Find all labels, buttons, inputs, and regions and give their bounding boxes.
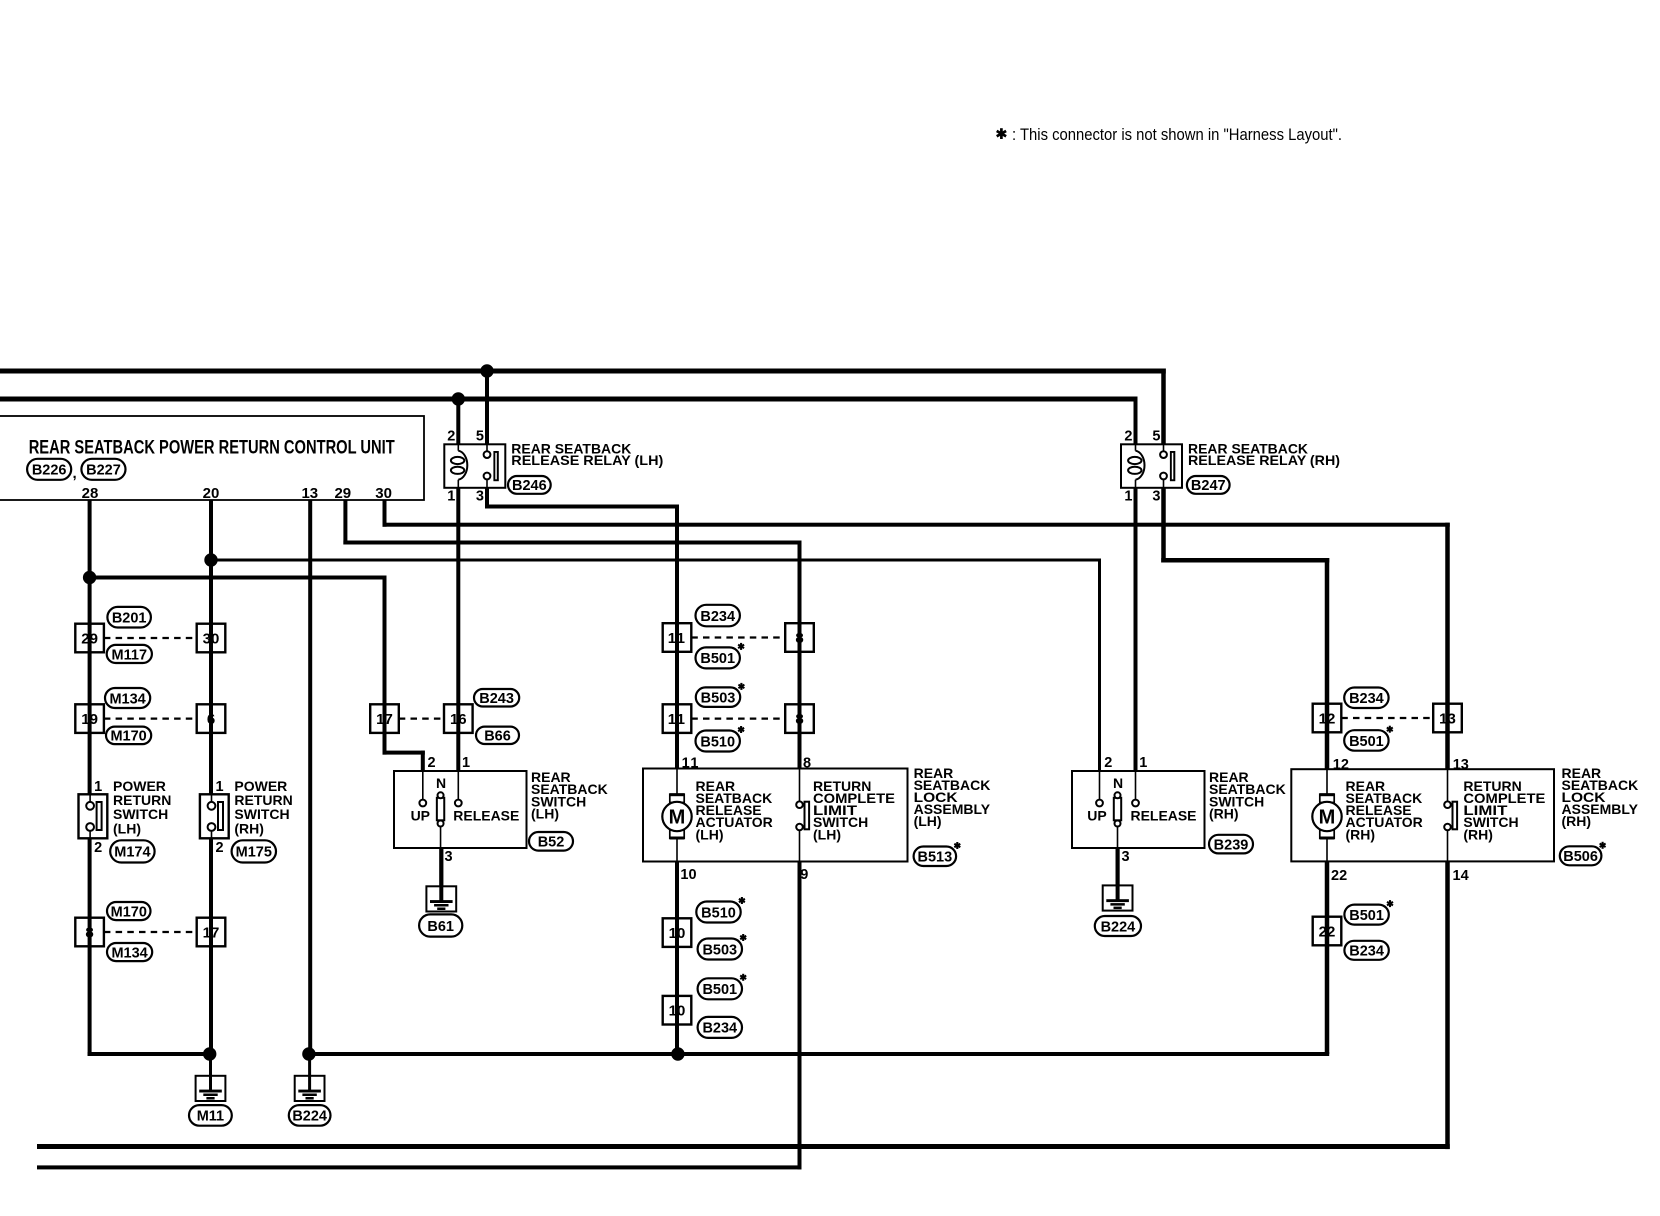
svg-text:14: 14 xyxy=(1453,868,1469,884)
power return switch (LH) name label xyxy=(113,778,171,836)
switch (LH) pin labels 2 1 3 xyxy=(428,755,471,865)
connector oval B234 xyxy=(1344,941,1388,960)
svg-text:B239: B239 xyxy=(1214,837,1249,853)
connector box 8 (upper) xyxy=(785,623,814,652)
wire: relay RH pin1 drop to switch RH pin1 xyxy=(1134,488,1138,770)
ground oval B224 xyxy=(1095,916,1141,936)
ground symbol B61 xyxy=(426,848,456,912)
ground symbol B224 (bottom) xyxy=(295,1054,325,1101)
relay B246 box xyxy=(444,444,505,488)
connector oval B503* xyxy=(696,687,740,707)
wire: relay RH pin3 drop xyxy=(1161,488,1166,563)
svg-text:17: 17 xyxy=(203,924,220,941)
ground oval M11 xyxy=(189,1105,232,1126)
switch (LH) N slider xyxy=(437,792,444,848)
connector box 17 (RH column) xyxy=(197,918,226,947)
wire: pin13 column xyxy=(308,500,312,1054)
wire: switch RH pin3 to ground B224 xyxy=(1116,848,1120,899)
relay B247 pin labels 2 5 1 3 xyxy=(1124,429,1160,505)
connector oval B243 xyxy=(474,689,519,707)
control unit box: REAR SEATBACK POWER RETURN CONTROL UNIT xyxy=(0,416,424,500)
ground oval B224 xyxy=(289,1105,331,1126)
lock assembly (RH) name label xyxy=(1562,765,1639,829)
connector box 16 xyxy=(444,704,473,733)
junction dot pin20 branch xyxy=(204,553,217,566)
svg-text:M174: M174 xyxy=(114,845,150,861)
switch (LH) RELEASE contact xyxy=(455,771,462,806)
svg-text:REAR SEATBACK POWER RETURN CON: REAR SEATBACK POWER RETURN CONTROL UNIT xyxy=(29,437,395,458)
svg-text:B501: B501 xyxy=(1349,908,1384,924)
svg-text:(RH): (RH) xyxy=(1463,826,1493,842)
wire: limit switch LH column lower xyxy=(798,862,802,1170)
wire: relay LH pin5 riser to bus1 xyxy=(485,369,489,445)
wire: pin29 horizontal to limit switch LH xyxy=(343,541,801,545)
release actuator motor (RH) xyxy=(1312,770,1341,862)
svg-text:3: 3 xyxy=(476,489,484,505)
svg-text:(LH): (LH) xyxy=(914,813,942,829)
switch (LH) text N UP RELEASE xyxy=(411,775,520,823)
connector box 22 xyxy=(1313,917,1342,946)
power return switch (RH) box xyxy=(200,794,229,838)
svg-text:17: 17 xyxy=(376,711,393,728)
svg-text:B503: B503 xyxy=(702,942,737,958)
connector box 30 xyxy=(197,624,226,653)
svg-text:RELEASE: RELEASE xyxy=(1131,807,1197,823)
actuator (LH) name label xyxy=(696,778,773,842)
lock assembly (RH) pin labels 12 13 22 14 xyxy=(1331,757,1469,884)
ground oval B61 xyxy=(419,914,462,936)
svg-text:M170: M170 xyxy=(111,904,147,920)
connector oval B506* xyxy=(1560,846,1602,865)
svg-text:12: 12 xyxy=(1333,757,1349,773)
wire: relay LH pin3 drop xyxy=(485,488,489,509)
relay label RELEASE RELAY (LH) xyxy=(511,440,663,468)
wire: switch LH pin2 drop xyxy=(421,751,425,771)
switch (RH) UP contact xyxy=(1096,771,1103,806)
wire: pin29 drop xyxy=(343,500,347,545)
connector oval B503* xyxy=(698,939,742,960)
wire: pin28 branch horizontal xyxy=(90,576,387,580)
wire: top bus line 2 xyxy=(0,397,1138,402)
power return switch (RH) contacts xyxy=(208,794,223,838)
svg-text:M: M xyxy=(1319,807,1336,829)
svg-text:M: M xyxy=(669,807,686,829)
wire: pin28 column lower xyxy=(88,838,92,1056)
wire: pin20 column upper xyxy=(209,500,213,794)
limit switch (LH) name label xyxy=(813,778,895,842)
svg-text:16: 16 xyxy=(450,711,467,728)
connector oval B247 xyxy=(1187,476,1230,494)
limit switch (RH) name label xyxy=(1463,778,1545,842)
svg-text:B52: B52 xyxy=(538,835,565,851)
svg-text:2: 2 xyxy=(216,840,224,856)
svg-text:RELEASE RELAY (RH): RELEASE RELAY (RH) xyxy=(1188,452,1340,468)
dashed link 19-6 xyxy=(104,717,197,719)
connector box 19 xyxy=(75,704,104,733)
svg-text:B234: B234 xyxy=(702,1021,737,1037)
svg-text:B506: B506 xyxy=(1563,849,1598,865)
wire: bus2 drop to relay RH pin2 xyxy=(1134,397,1138,445)
wire: switch RH pin2 drop xyxy=(1098,559,1101,771)
relay B246 coil xyxy=(451,444,467,488)
svg-text:B234: B234 xyxy=(1349,691,1384,707)
connector oval M170 xyxy=(106,727,151,745)
junction dot bus1 / relay LH pin5 xyxy=(480,364,493,377)
switch (LH) name label xyxy=(531,769,608,822)
dashed link 11-8 lower xyxy=(691,717,785,719)
svg-text:10: 10 xyxy=(669,925,686,942)
svg-text:3: 3 xyxy=(445,849,453,865)
relay B247 contact xyxy=(1160,444,1175,488)
wire: bottom ground segment A xyxy=(88,1052,212,1056)
switch (LH) UP contact xyxy=(419,771,426,806)
svg-text:N: N xyxy=(1113,775,1123,791)
connector oval B510* xyxy=(696,902,740,923)
svg-text:1: 1 xyxy=(1139,755,1147,771)
svg-text:29: 29 xyxy=(81,630,98,647)
svg-text:B246: B246 xyxy=(512,478,547,494)
rear seatback lock assembly (RH) box xyxy=(1291,769,1554,861)
connector box 10 (upper) xyxy=(663,918,692,947)
svg-text:B501: B501 xyxy=(700,651,735,667)
connector oval B227 xyxy=(81,459,125,480)
connector oval B52 xyxy=(529,832,573,851)
wire: pin30 drop xyxy=(383,500,387,527)
wire: branch drop to connector 17 xyxy=(383,576,387,755)
connector oval B239 xyxy=(1209,835,1253,854)
svg-text:2: 2 xyxy=(1124,429,1132,445)
svg-text:1: 1 xyxy=(216,779,224,795)
svg-text:M11: M11 xyxy=(197,1109,224,1125)
connector oval M134 xyxy=(105,688,150,708)
svg-text:(LH): (LH) xyxy=(113,820,141,836)
svg-text:B224: B224 xyxy=(1101,919,1136,935)
wire: pin20 column lower xyxy=(209,838,213,1056)
svg-text:12: 12 xyxy=(1319,710,1336,727)
svg-text:6: 6 xyxy=(207,711,215,728)
svg-text:5: 5 xyxy=(476,429,484,445)
svg-text:20: 20 xyxy=(203,485,220,502)
connector oval B510* xyxy=(696,731,740,752)
svg-text:10: 10 xyxy=(680,867,696,883)
svg-text:(RH): (RH) xyxy=(234,820,264,836)
wire: relay LH pin1 drop to switch LH pin1 (via connector 16) xyxy=(456,488,460,771)
connector oval B501* xyxy=(696,647,740,668)
svg-text:(LH): (LH) xyxy=(531,806,559,822)
wire: bottom ground segment B xyxy=(308,1052,1329,1056)
wire: limit switch RH column upper (via connector 13) xyxy=(1445,523,1450,770)
junction dot ground B224 xyxy=(302,1047,315,1060)
connector oval B234 xyxy=(698,1017,742,1038)
svg-text:(LH): (LH) xyxy=(696,826,724,842)
svg-text:10: 10 xyxy=(669,1003,686,1020)
switch (RH) N slider xyxy=(1114,792,1121,848)
return complete limit switch (LH) contacts xyxy=(796,770,809,862)
svg-text:: This connector is not shown: : This connector is not shown in "Harnes… xyxy=(1012,126,1342,144)
connector oval B513* xyxy=(914,847,957,867)
svg-text:2: 2 xyxy=(1104,755,1112,771)
wire: pin30 horizontal to limit switch RH xyxy=(383,523,1450,527)
svg-text:,: , xyxy=(73,465,77,482)
connector oval M117 xyxy=(107,645,152,663)
svg-text:8: 8 xyxy=(795,711,803,728)
connector oval B226 xyxy=(27,459,71,480)
dashed link 8-17 xyxy=(104,931,197,933)
lock assembly (LH) name label xyxy=(914,765,991,829)
svg-text:8: 8 xyxy=(85,924,93,941)
connector box 17 (branch) xyxy=(370,704,399,733)
wire: actuator LH column lower (via connectors 10) xyxy=(675,862,679,1055)
svg-text:11: 11 xyxy=(668,630,686,647)
connector oval B501* xyxy=(698,978,742,999)
junction dot ground M11 xyxy=(203,1047,216,1060)
power return switch (RH) pin labels 1 2 xyxy=(216,779,224,856)
dashed link 29-30 xyxy=(104,637,197,639)
relay B247 coil xyxy=(1128,444,1144,488)
svg-text:B201: B201 xyxy=(112,611,147,627)
svg-text:M134: M134 xyxy=(111,945,147,961)
top note asterisk xyxy=(997,128,1006,139)
svg-text:B61: B61 xyxy=(427,919,454,935)
svg-text:11: 11 xyxy=(668,711,686,728)
connector box 13 xyxy=(1433,704,1462,733)
wire: feed to actuator RH horizontal xyxy=(1161,558,1329,563)
svg-text:11: 11 xyxy=(682,756,700,772)
lock assembly (LH) pin labels 11 8 10 9 xyxy=(680,756,811,883)
svg-text:1: 1 xyxy=(462,755,470,771)
svg-text:8: 8 xyxy=(795,630,803,647)
svg-text:B503: B503 xyxy=(701,690,736,706)
wire: actuator RH column upper xyxy=(1325,558,1330,769)
svg-text:1: 1 xyxy=(94,779,102,795)
wire: bottom bus line 2 xyxy=(37,1165,802,1169)
svg-text:B227: B227 xyxy=(86,463,121,479)
svg-text:3: 3 xyxy=(1122,849,1130,865)
connector oval B234 xyxy=(696,605,740,627)
relay B246 pin labels 2 5 1 3 xyxy=(447,429,484,505)
power return switch (LH) contacts xyxy=(86,794,101,838)
svg-text:B513: B513 xyxy=(918,850,953,866)
svg-text:UP: UP xyxy=(411,807,430,823)
power return switch (LH) box xyxy=(79,794,108,838)
svg-text:(LH): (LH) xyxy=(813,826,841,842)
svg-text:(RH): (RH) xyxy=(1209,806,1239,822)
connector box 6 xyxy=(197,704,226,733)
svg-text:19: 19 xyxy=(81,711,98,728)
connector oval B234 xyxy=(1344,688,1388,709)
junction dot actuator LH ground xyxy=(671,1047,684,1060)
junction dot pin28 branch xyxy=(83,571,96,584)
switch (RH) RELEASE contact xyxy=(1132,771,1139,806)
dashed link 11-8 upper xyxy=(691,636,785,638)
junction dot bus2 / relay LH pin2 xyxy=(452,392,465,405)
svg-text:22: 22 xyxy=(1331,868,1347,884)
svg-text:2: 2 xyxy=(428,755,436,771)
connector box 11 (upper) xyxy=(663,623,692,652)
connector oval M174 xyxy=(110,840,154,862)
switch (RH) text N UP RELEASE xyxy=(1087,775,1196,823)
rear seatback switch (RH) box xyxy=(1072,771,1205,848)
power return switch (RH) name label xyxy=(234,778,292,836)
svg-text:5: 5 xyxy=(1152,429,1160,445)
wire: jog horizontal to switch LH pin2 xyxy=(383,751,425,755)
svg-text:B510: B510 xyxy=(700,734,735,750)
svg-text:28: 28 xyxy=(82,485,99,502)
svg-text:M170: M170 xyxy=(110,729,146,745)
dashed link 12-13 xyxy=(1341,717,1433,719)
connector box 10 (lower) xyxy=(663,996,692,1025)
svg-text:B501: B501 xyxy=(1349,734,1384,750)
wire: actuator RH column lower (via connector 22) xyxy=(1325,862,1330,1055)
wire: top bus line 1 xyxy=(0,369,1166,374)
connector oval B501* xyxy=(1344,905,1388,925)
ground symbol B224 (switch RH) xyxy=(1103,848,1133,911)
svg-text:13: 13 xyxy=(1439,710,1456,727)
wire: limit switch LH column upper (via connectors 8) xyxy=(798,541,802,769)
connector oval B201 xyxy=(107,607,150,628)
svg-text:B66: B66 xyxy=(484,729,511,745)
wire: actuator LH column upper (via connectors 11) xyxy=(675,505,679,769)
release actuator motor (LH) xyxy=(662,770,691,862)
rear seatback lock assembly (LH) box xyxy=(643,769,908,862)
svg-text:1: 1 xyxy=(1124,489,1132,505)
svg-text:RELEASE: RELEASE xyxy=(453,807,519,823)
wire: relay LH pin3 horizontal to actuator LH xyxy=(485,505,679,509)
connector box 11 (lower) xyxy=(663,704,692,733)
svg-text:M117: M117 xyxy=(112,647,147,663)
dashed link 17-16 xyxy=(399,717,444,719)
svg-text:UP: UP xyxy=(1087,807,1106,823)
svg-text:9: 9 xyxy=(800,867,808,883)
wire: limit switch RH column lower xyxy=(1445,862,1450,1150)
svg-text:(RH): (RH) xyxy=(1346,826,1376,842)
svg-text:M175: M175 xyxy=(236,845,272,861)
svg-text:8: 8 xyxy=(803,756,811,772)
svg-text:30: 30 xyxy=(375,485,392,502)
relay B246 contact xyxy=(484,444,499,488)
connector oval B66 xyxy=(476,727,519,745)
svg-text:2: 2 xyxy=(447,429,455,445)
svg-text:13: 13 xyxy=(301,485,318,502)
svg-text:2: 2 xyxy=(94,840,102,856)
power return switch (LH) pin labels 1 2 xyxy=(94,779,102,856)
connector box 8 (LH column) xyxy=(75,918,104,947)
svg-text:N: N xyxy=(436,775,446,791)
wire: bottom bus line 1 xyxy=(37,1144,1450,1149)
switch (RH) pin labels 2 1 3 xyxy=(1104,755,1147,865)
connector box 8 (lower) xyxy=(785,704,814,733)
svg-text:(RH): (RH) xyxy=(1562,813,1592,829)
wire: relay LH pin2 riser to bus2 xyxy=(456,397,460,445)
connector oval B246 xyxy=(508,476,551,494)
wire: pin28 column upper xyxy=(88,500,92,794)
svg-text:B243: B243 xyxy=(479,691,514,707)
return complete limit switch (RH) contacts xyxy=(1444,770,1457,862)
svg-text:B234: B234 xyxy=(700,609,735,625)
wire: bus1 drop to relay RH pin5 xyxy=(1161,369,1166,445)
svg-text:29: 29 xyxy=(334,485,351,502)
ground symbol M11 xyxy=(196,1054,226,1101)
relay label RELEASE RELAY (RH) xyxy=(1188,440,1340,468)
svg-text:B226: B226 xyxy=(32,463,67,479)
connector oval M170 xyxy=(107,902,151,920)
svg-text:1: 1 xyxy=(447,489,455,505)
svg-text:30: 30 xyxy=(203,630,220,647)
svg-text:B224: B224 xyxy=(292,1109,327,1125)
relay B247 box xyxy=(1121,444,1182,488)
connector box 12 xyxy=(1313,704,1342,733)
svg-text:B234: B234 xyxy=(1349,944,1384,960)
switch (RH) name label xyxy=(1209,769,1286,822)
svg-text:13: 13 xyxy=(1453,757,1469,773)
connector oval M175 xyxy=(232,840,276,862)
wire: switch LH pin3 to ground B61 xyxy=(439,848,443,899)
svg-text:M134: M134 xyxy=(109,691,145,707)
connector oval M134 xyxy=(107,943,152,961)
svg-text:3: 3 xyxy=(1152,489,1160,505)
svg-text:B247: B247 xyxy=(1191,478,1226,494)
rear seatback switch (LH) box xyxy=(394,771,527,848)
svg-text:B501: B501 xyxy=(702,982,737,998)
connector box 29 xyxy=(75,624,104,653)
actuator (RH) name label xyxy=(1346,778,1423,842)
svg-text:RELEASE RELAY (LH): RELEASE RELAY (LH) xyxy=(511,452,663,468)
connector oval B501* xyxy=(1344,730,1388,751)
svg-text:22: 22 xyxy=(1319,923,1336,940)
wire: pin20 branch horizontal to switch RH pin2 xyxy=(210,559,1101,562)
svg-text:B510: B510 xyxy=(701,905,736,921)
